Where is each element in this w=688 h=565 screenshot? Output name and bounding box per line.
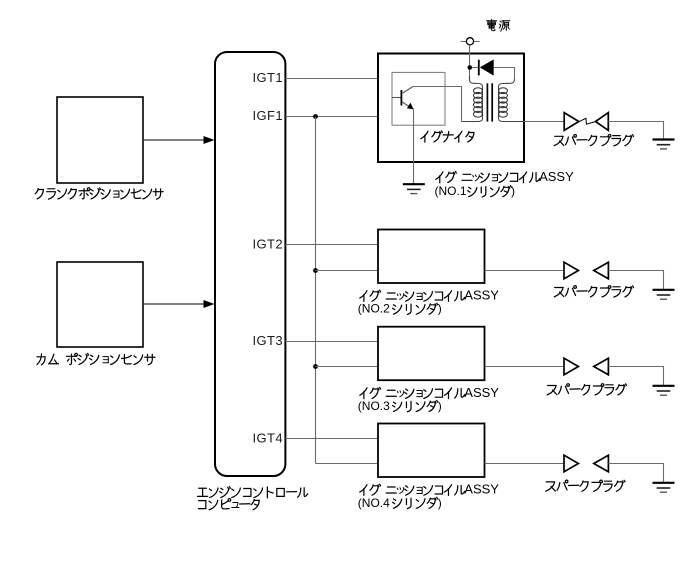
wire coil 2 output xyxy=(485,270,565,272)
svg-text:): ) xyxy=(438,399,442,413)
wire spark plug 4 to ground xyxy=(608,464,663,483)
svg-text:(NO.3: (NO.3 xyxy=(358,399,390,413)
transistor Q1 (igniter) xyxy=(400,90,402,106)
label: ignition coil assy no.3 line1 xyxy=(360,385,500,400)
wire spark plug 1 to ground xyxy=(608,122,663,140)
svg-text:ASSY: ASSY xyxy=(464,288,499,303)
arrow from cam sensor to ECU xyxy=(143,303,205,305)
svg-text:): ) xyxy=(511,184,515,198)
node IGF branch dot row3 xyxy=(313,364,318,369)
ground below igniter xyxy=(403,183,425,185)
ground right row4 xyxy=(653,482,675,484)
label: spark plug 3 xyxy=(547,384,626,395)
label: spark plug 4 xyxy=(546,480,625,491)
label: spark plug 2 xyxy=(554,286,633,297)
wire diode anode to secondary top xyxy=(494,68,515,80)
transformer secondary winding xyxy=(499,79,525,122)
sensor box: cam position sensor xyxy=(57,262,143,347)
svg-text:): ) xyxy=(438,302,442,316)
label: crank position sensor xyxy=(35,188,163,199)
label: spark plug 1 xyxy=(554,135,633,146)
node IGF1 junction dot xyxy=(313,114,318,119)
label: ignition coil assy no.1 line1 xyxy=(436,169,574,184)
svg-text:IGT4: IGT4 xyxy=(253,431,284,446)
node power junction dot xyxy=(468,65,473,70)
wire IGF branch row4 xyxy=(316,463,379,465)
svg-text:(NO.1: (NO.1 xyxy=(435,184,467,198)
node IGF branch dot row2 xyxy=(313,268,318,273)
wire power drop xyxy=(469,45,471,80)
wire spark plug 2 to ground xyxy=(608,271,663,290)
wire junction to diode xyxy=(472,67,478,69)
wire secondary to spark plug 1 xyxy=(524,121,564,123)
wire IGT4 xyxy=(285,438,378,440)
label: engine control computer line1 xyxy=(198,487,308,498)
wire collector to primary xyxy=(413,87,462,122)
ground right row1 xyxy=(653,138,675,140)
wire IGF branch row2 xyxy=(316,270,379,272)
label: ignition coil assy no.1 line2 xyxy=(435,184,516,198)
wire emitter to ground xyxy=(413,109,415,185)
wire IGF1 xyxy=(285,116,378,118)
label: ignition coil assy no.4 line1 xyxy=(360,482,500,497)
label: ignition coil assy no.4 line2 xyxy=(358,496,442,510)
spark plug 3 xyxy=(564,358,578,375)
sensor box: crank position sensor xyxy=(57,97,143,183)
transformer primary winding xyxy=(462,76,483,122)
ignition coil assembly box NO.3 xyxy=(378,327,485,381)
diode D1 xyxy=(478,60,480,76)
power terminal (dengen) xyxy=(461,41,480,43)
ground right row2 xyxy=(653,289,675,291)
svg-text:): ) xyxy=(438,496,442,510)
spark plug 4 xyxy=(564,455,578,472)
label: ignition coil assy no.2 line2 xyxy=(358,302,442,316)
ignition coil assembly box NO.4 xyxy=(378,424,485,478)
wire IGT2 xyxy=(285,244,378,246)
transformer core xyxy=(486,83,488,121)
svg-text:IGT3: IGT3 xyxy=(253,333,284,348)
wire IGT1 xyxy=(285,78,378,80)
label: igniter xyxy=(421,131,474,142)
svg-text:(NO.4: (NO.4 xyxy=(358,496,390,510)
wire spark plug 3 to ground xyxy=(608,367,663,386)
label: cam position sensor xyxy=(37,353,155,364)
ECU box (engine control computer) xyxy=(215,52,285,476)
ground right row3 xyxy=(653,385,675,387)
label: engine control computer line2 xyxy=(198,499,259,510)
wire IGT3 xyxy=(285,341,378,343)
svg-text:IGF1: IGF1 xyxy=(253,108,284,123)
svg-text:(NO.2: (NO.2 xyxy=(358,302,390,316)
svg-text:ASSY: ASSY xyxy=(539,169,574,184)
label: ignition coil assy no.3 line2 xyxy=(358,399,442,413)
label: ignition coil assy no.2 line1 xyxy=(360,288,500,303)
spark plug 2 xyxy=(564,262,578,279)
wire IGF branch row3 xyxy=(316,366,379,368)
svg-text:ASSY: ASSY xyxy=(464,385,499,400)
igniter inner box xyxy=(392,72,445,125)
svg-text:IGT2: IGT2 xyxy=(253,237,284,252)
spark plug 1 xyxy=(564,113,579,131)
wire coil 3 output xyxy=(485,366,565,368)
wire coil 4 output xyxy=(485,463,565,465)
label: dengen (power) xyxy=(487,20,510,32)
ignition coil assembly box NO.2 xyxy=(378,230,485,284)
svg-text:IGT1: IGT1 xyxy=(253,70,284,85)
wire IGF bus vertical xyxy=(315,117,317,464)
svg-text:ASSY: ASSY xyxy=(464,482,499,497)
arrow from crank sensor to ECU xyxy=(143,139,205,141)
ignition coil assembly box NO.1 xyxy=(378,54,524,163)
